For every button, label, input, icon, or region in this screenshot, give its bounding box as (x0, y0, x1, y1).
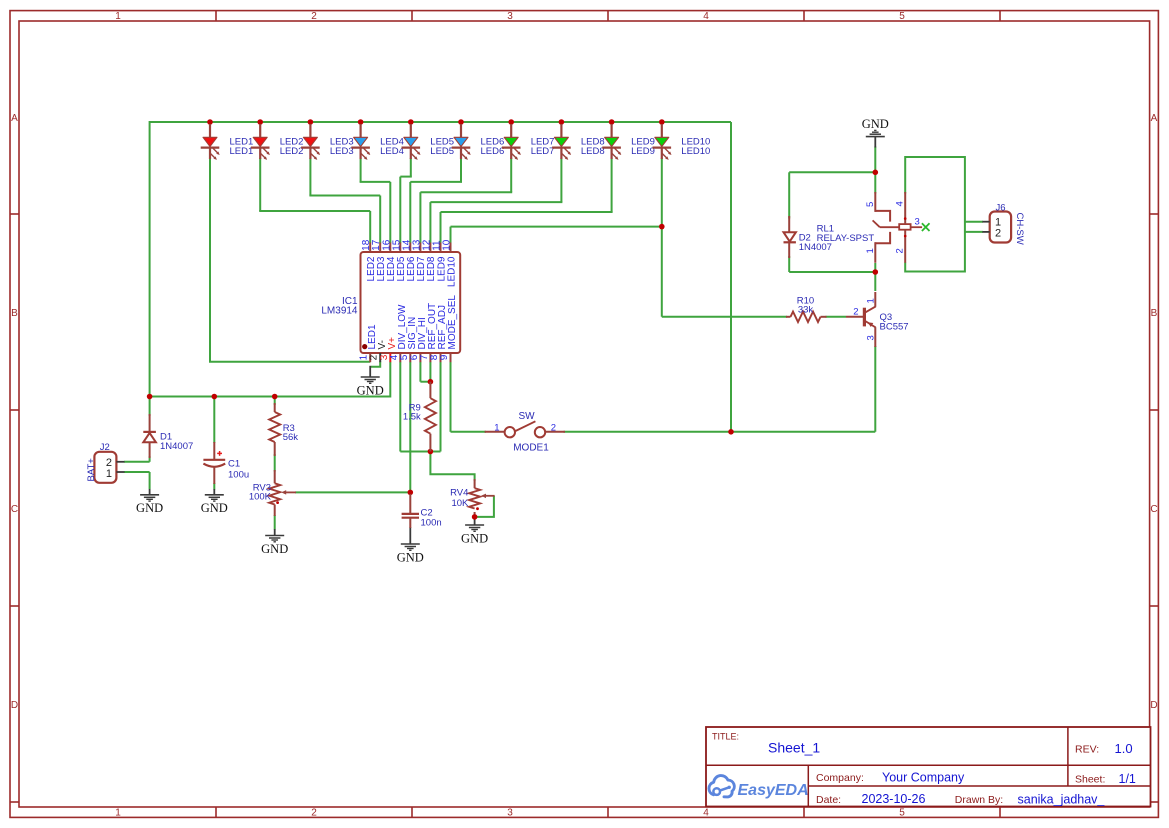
svg-text:LED8: LED8 (581, 146, 605, 157)
wire: R3 to RV3 (274, 454, 276, 472)
svg-text:LED1: LED1 (230, 146, 254, 157)
ground C2 (397, 544, 424, 564)
svg-text:REV:: REV: (1075, 744, 1099, 756)
svg-text:J6: J6 (996, 202, 1006, 213)
wire: RV4 wiper loop (475, 496, 494, 517)
wire: LED9 cathode to IC (611, 158, 613, 212)
svg-text:Sheet:: Sheet: (1075, 774, 1105, 786)
wire: coil top to D2 top (789, 171, 875, 173)
svg-text:sanika_jadhav_: sanika_jadhav_ (1018, 793, 1106, 807)
wire: LED anode top rail (150, 121, 731, 123)
junction V+ rail at C1 (212, 394, 218, 400)
svg-text:GND: GND (201, 501, 228, 515)
transistor Q3 BC557 (846, 292, 909, 347)
svg-text:Sheet_1: Sheet_1 (768, 740, 820, 756)
svg-text:4: 4 (703, 808, 709, 819)
svg-text:MODE1: MODE1 (513, 443, 549, 454)
svg-text:1: 1 (865, 248, 876, 253)
svg-text:5: 5 (899, 808, 905, 819)
ground RV4 (461, 525, 488, 545)
svg-text:Your Company: Your Company (882, 771, 965, 785)
wire: IC pin 7 REF_OUT down to R9 (429, 362, 431, 382)
svg-text:C: C (1150, 504, 1157, 515)
svg-text:10: 10 (442, 239, 453, 251)
junction V+ rail at D1 (147, 394, 153, 400)
connector J2 BAT+ (86, 442, 125, 483)
ground J2 (136, 495, 163, 515)
junction SIG_IN / RV3 / C2 (408, 490, 414, 496)
wire: IC pin 2 to ground (371, 362, 380, 367)
junction LED10 / R10 (659, 224, 665, 230)
svg-text:A: A (1151, 113, 1158, 124)
diode D1 1N4007 (143, 414, 193, 458)
LED LED2 (251, 124, 304, 160)
svg-text:1N4007: 1N4007 (160, 441, 193, 452)
svg-text:BC557: BC557 (880, 322, 909, 333)
junction switch rail / LED rail (728, 429, 734, 435)
wire: J2 pin 1 to ground (124, 471, 150, 473)
svg-text:2: 2 (551, 423, 556, 434)
svg-text:GND: GND (357, 383, 384, 397)
svg-text:2: 2 (853, 307, 858, 318)
svg-text:SW: SW (518, 411, 535, 422)
wire: LED6 cathode to IC (460, 158, 462, 182)
svg-text:3: 3 (865, 335, 876, 340)
potentiometer RV3 100K (249, 470, 296, 516)
svg-text:2: 2 (311, 11, 317, 22)
svg-text:D: D (1150, 700, 1157, 711)
svg-text:2023-10-26: 2023-10-26 (862, 792, 926, 806)
junction coil bottom / Q3 (873, 269, 879, 275)
svg-text:GND: GND (461, 531, 488, 545)
svg-text:EasyEDA: EasyEDA (738, 782, 809, 799)
wire: LED7 cathode to IC (510, 158, 512, 192)
svg-text:5: 5 (865, 202, 876, 207)
wire: RV3 wiper to SIG_IN (295, 491, 410, 493)
wire: V+ rail to battery (150, 396, 391, 398)
svg-text:Company:: Company: (816, 772, 864, 784)
wire: switch to Q3 emitter (564, 431, 876, 433)
svg-text:1: 1 (115, 11, 121, 22)
wire: LED1 cathode to IC (209, 158, 211, 362)
ground relay (inverted symbol) (862, 117, 889, 147)
svg-text:4: 4 (703, 11, 709, 22)
junction R9 bottom bus (428, 449, 434, 455)
ground RV3 (261, 536, 288, 556)
wire: coil bottom / D2 bottom (789, 271, 875, 273)
resistor R10 33k (786, 295, 827, 322)
svg-text:LED10: LED10 (681, 146, 710, 157)
LED LED6 (452, 124, 505, 160)
svg-text:1: 1 (106, 468, 112, 480)
wire: LED10 cathode to IC (661, 158, 663, 227)
relay RL1 RELAY-SPST (817, 192, 930, 263)
svg-text:2: 2 (895, 248, 906, 253)
junction DIV_HI / R9 (428, 379, 434, 385)
svg-text:1.0: 1.0 (1115, 741, 1133, 756)
junction coil top / GND (873, 170, 879, 176)
svg-text:GND: GND (136, 501, 163, 515)
LED LED1 (201, 124, 254, 160)
svg-text:D: D (11, 700, 18, 711)
wire: LED3 cathode to IC (309, 158, 311, 196)
svg-text:5: 5 (899, 11, 905, 22)
svg-text:LED5: LED5 (430, 146, 454, 157)
svg-text:100K: 100K (249, 492, 272, 503)
svg-text:LED3: LED3 (330, 146, 354, 157)
svg-text:3: 3 (507, 808, 513, 819)
capacitor C2 100n (402, 494, 442, 529)
wire: V+ rail down to D1 cathode (149, 397, 151, 417)
svg-text:2: 2 (311, 808, 317, 819)
resistor R9 1.5k (403, 382, 436, 452)
svg-text:1: 1 (865, 298, 876, 303)
svg-text:1/1: 1/1 (1119, 772, 1136, 786)
svg-text:C: C (11, 504, 18, 515)
svg-text:J2: J2 (100, 442, 110, 453)
wire: Q3 emitter vertical (874, 346, 876, 432)
svg-text:Date:: Date: (816, 794, 841, 806)
svg-text:GND: GND (261, 542, 288, 556)
svg-text:TITLE:: TITLE: (712, 732, 739, 742)
wire: LED4 cathode to IC (360, 158, 362, 182)
svg-text:LED4: LED4 (380, 146, 404, 157)
wire: J6 pin 2 (965, 231, 983, 233)
LED LED9 (602, 124, 655, 160)
diode D2 1N4007 (784, 216, 832, 258)
svg-text:LED6: LED6 (481, 146, 505, 157)
svg-text:C1: C1 (228, 459, 240, 470)
svg-text:RELAY-SPST: RELAY-SPST (817, 233, 875, 244)
title block (706, 727, 1151, 807)
connector J6 CH-SW (982, 202, 1024, 244)
svg-text:LED2: LED2 (280, 146, 304, 157)
wire: IC pin 4 DIV_LOW down (399, 362, 401, 452)
LED LED8 (552, 124, 605, 160)
svg-text:GND: GND (397, 550, 424, 564)
svg-text:100n: 100n (421, 518, 442, 529)
svg-text:4: 4 (895, 201, 906, 206)
svg-text:BAT+: BAT+ (86, 458, 97, 482)
wire: J6 pin 1 (965, 221, 983, 223)
wire: DIV_LOW / REF_ADJ bus (400, 451, 440, 453)
ground IC V- (357, 377, 384, 397)
svg-text:B: B (1151, 308, 1158, 319)
wire: V+ riser to IC pin 3 (389, 362, 391, 398)
svg-text:10K: 10K (451, 498, 469, 509)
wire: relay contact loop (905, 157, 965, 272)
wire: R9 bottom junction down to RV4 (430, 452, 474, 482)
svg-text:3: 3 (507, 11, 513, 22)
capacitor C1 100u (203, 442, 249, 484)
svg-text:LED9: LED9 (631, 146, 655, 157)
svg-text:1: 1 (494, 423, 499, 434)
wire: junction to relay pin 5 (874, 172, 876, 193)
wire: relay pin 1 to junction (874, 263, 876, 272)
potentiometer RV4 10K (450, 479, 495, 510)
junction dots on LED rail (207, 119, 664, 125)
svg-text:1.5k: 1.5k (403, 412, 421, 423)
junction RV4 bottom (472, 514, 478, 520)
junction V+ rail at R3 (272, 394, 278, 400)
wire: RV3 bottom to ground (274, 515, 276, 530)
wire: C2 bottom to ground (409, 527, 411, 544)
wire: IC pin 8 REF_ADJ down (440, 362, 442, 452)
wire: LED10 net down to R10 (661, 227, 663, 317)
IC IC1 LM3914 LED bar driver (321, 239, 460, 362)
LED LED7 (502, 124, 555, 160)
svg-text:56k: 56k (283, 432, 299, 443)
svg-text:9: 9 (439, 354, 450, 360)
wire: LED rail right side down (730, 122, 732, 432)
wire: left vertical rail (149, 121, 151, 397)
LED LED3 (301, 124, 354, 160)
wire: LED5 cathode to IC (410, 158, 412, 177)
svg-text:LM3914: LM3914 (321, 306, 358, 317)
LED LED10 (653, 124, 711, 160)
wire: R3 top (274, 397, 276, 406)
svg-text:MODE_SEL: MODE_SEL (447, 295, 458, 350)
wire: GND to coil top junction (874, 147, 876, 173)
svg-text:LED10: LED10 (446, 256, 457, 287)
wire: R10 to Q3 base (826, 316, 847, 318)
svg-text:3: 3 (915, 216, 920, 227)
svg-text:CH-SW: CH-SW (1014, 213, 1025, 245)
svg-text:GND: GND (862, 117, 889, 131)
ground C1 (201, 495, 228, 515)
LED LED4 (351, 124, 404, 160)
wire: Q3 collector to relay coil junction (874, 272, 876, 291)
LED LED5 (402, 124, 455, 160)
wire: IC pin 9 MODE_SEL to switch (450, 362, 452, 432)
svg-text:LED7: LED7 (531, 146, 555, 157)
wire: LED2 cathode to IC (259, 158, 261, 211)
svg-text:B: B (11, 308, 18, 319)
svg-text:33k: 33k (798, 304, 814, 315)
wire: J2 pin 2 to D1 anode (124, 461, 150, 463)
svg-text:100u: 100u (228, 469, 249, 480)
wire: LED8 cathode to IC (560, 158, 562, 202)
EasyEDA logo (709, 776, 809, 799)
svg-text:2: 2 (995, 228, 1001, 240)
resistor R3 56k (269, 403, 298, 456)
switch SW MODE1 (485, 411, 565, 454)
wire: RV4 bottom to ground (474, 512, 476, 519)
svg-text:1: 1 (115, 808, 121, 819)
svg-text:Drawn By:: Drawn By: (955, 794, 1003, 806)
wire: IC pin 6 DIV_HI jog (419, 362, 421, 382)
wire: IC pin 5 SIG_IN down (409, 362, 411, 493)
wire: C1 top (213, 397, 215, 444)
svg-text:A: A (11, 113, 18, 124)
